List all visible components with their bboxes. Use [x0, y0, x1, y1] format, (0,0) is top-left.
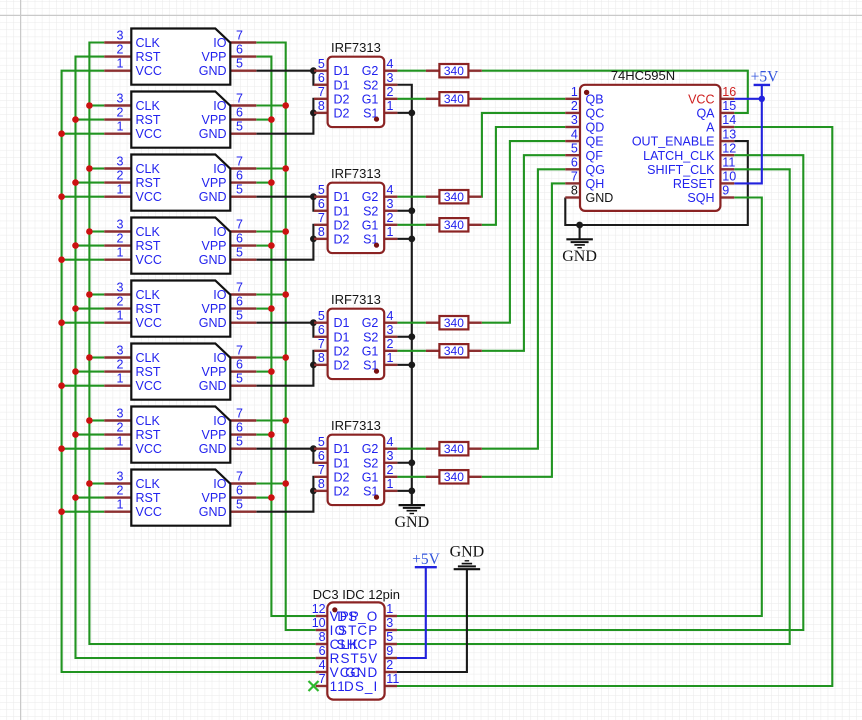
- svg-text:5V: 5V: [360, 651, 379, 666]
- ground 595: [562, 239, 597, 264]
- svg-text:RST: RST: [136, 113, 161, 127]
- svg-text:S2: S2: [363, 204, 378, 218]
- svg-text:5: 5: [318, 57, 325, 71]
- svg-text:VCC: VCC: [136, 442, 162, 456]
- svg-text:7: 7: [236, 218, 243, 232]
- svg-text:3: 3: [571, 113, 578, 127]
- svg-text:VCC: VCC: [136, 253, 162, 267]
- junction dot 595 GND: [576, 222, 583, 229]
- svg-text:1: 1: [387, 225, 394, 239]
- svg-text:7: 7: [236, 281, 243, 295]
- svg-text:7: 7: [318, 85, 325, 99]
- svg-text:1: 1: [387, 99, 394, 113]
- svg-text:9: 9: [722, 184, 729, 198]
- svg-text:RST: RST: [330, 651, 360, 666]
- svg-text:6: 6: [318, 197, 325, 211]
- svg-text:QA: QA: [696, 107, 715, 121]
- wire 595 GND / OUT_ENABLE net: [565, 141, 748, 239]
- svg-text:5: 5: [236, 120, 243, 134]
- wire gate-resistor links: [397, 71, 426, 477]
- svg-text:G1: G1: [362, 92, 379, 106]
- svg-text:CLK: CLK: [136, 99, 161, 113]
- svg-text:1: 1: [387, 477, 394, 491]
- svg-text:340: 340: [444, 92, 464, 106]
- svg-text:4: 4: [387, 183, 394, 197]
- ground DC3: [450, 543, 485, 569]
- svg-text:D1: D1: [334, 190, 350, 204]
- svg-text:D1: D1: [334, 442, 350, 456]
- svg-text:IRF7313: IRF7313: [331, 166, 381, 181]
- wire GND of socket 3 to IRF2 D1: [256, 197, 314, 211]
- wire IRF sources to GND chain: [397, 85, 411, 505]
- svg-text:5: 5: [236, 246, 243, 260]
- svg-text:1: 1: [571, 85, 578, 99]
- svg-text:DS_I: DS_I: [344, 679, 378, 694]
- svg-text:5: 5: [386, 630, 393, 644]
- svg-text:3: 3: [117, 281, 124, 295]
- wire VCC bus: [62, 71, 316, 672]
- svg-text:G2: G2: [362, 316, 379, 330]
- svg-text:RST: RST: [136, 302, 161, 316]
- svg-text:6: 6: [236, 358, 243, 372]
- connector DC3 IDC 12pin: [312, 587, 400, 700]
- connector socket P8: [104, 470, 256, 526]
- svg-text:D2: D2: [334, 484, 350, 498]
- svg-text:2: 2: [117, 43, 124, 57]
- resistor 340 #8: [426, 470, 482, 484]
- svg-text:IO: IO: [213, 36, 226, 50]
- svg-text:QD: QD: [586, 121, 605, 135]
- svg-text:340: 340: [444, 442, 464, 456]
- svg-text:6: 6: [236, 169, 243, 183]
- resistor 340 #1: [426, 64, 482, 78]
- svg-text:7: 7: [236, 470, 243, 484]
- svg-text:G2: G2: [362, 442, 379, 456]
- resistor 340 #3: [426, 190, 482, 204]
- wire QG to R7: [482, 169, 566, 448]
- svg-text:GND: GND: [199, 127, 227, 141]
- svg-text:G1: G1: [362, 470, 379, 484]
- svg-text:QF: QF: [586, 149, 604, 163]
- svg-text:S2: S2: [363, 456, 378, 470]
- svg-text:VPP: VPP: [201, 491, 226, 505]
- wire GND of socket 1 to IRF1 D1: [256, 71, 314, 85]
- svg-text:6: 6: [236, 421, 243, 435]
- svg-text:D2: D2: [334, 92, 350, 106]
- svg-text:GND: GND: [450, 543, 485, 560]
- svg-text:6: 6: [236, 43, 243, 57]
- svg-text:D2: D2: [334, 358, 350, 372]
- svg-text:D2: D2: [334, 470, 350, 484]
- svg-text:D1: D1: [334, 330, 350, 344]
- wire QC to R3: [482, 113, 566, 197]
- svg-text:RST: RST: [136, 491, 161, 505]
- svg-text:VCC: VCC: [136, 64, 162, 78]
- svg-text:3: 3: [117, 29, 124, 43]
- transistor IRF7313 #1: [314, 40, 397, 127]
- resistor 340 #6: [426, 344, 482, 358]
- wire GND of socket 4 to IRF2 D2: [256, 225, 314, 260]
- svg-text:SQH: SQH: [687, 191, 714, 205]
- svg-text:1: 1: [117, 435, 124, 449]
- wire QD to R4: [482, 127, 566, 225]
- svg-text:QG: QG: [586, 163, 605, 177]
- svg-text:IRF7313: IRF7313: [331, 292, 381, 307]
- junction dots CLK bus: [86, 102, 93, 487]
- svg-text:11: 11: [386, 672, 399, 686]
- transistor IRF7313 #4: [314, 418, 397, 505]
- svg-text:VCC: VCC: [688, 92, 714, 106]
- svg-text:16: 16: [722, 85, 736, 99]
- svg-text:A: A: [706, 121, 715, 135]
- wire LATCH_CLK to STCP: [397, 155, 803, 630]
- svg-text:CLK: CLK: [136, 477, 161, 491]
- svg-text:DC3 IDC 12pin: DC3 IDC 12pin: [313, 587, 400, 602]
- svg-text:11: 11: [722, 156, 735, 170]
- svg-text:7: 7: [318, 211, 325, 225]
- svg-text:VPP: VPP: [201, 428, 226, 442]
- connector socket P5: [104, 281, 256, 337]
- junction dot +5V VCC: [759, 96, 765, 102]
- svg-text:D2: D2: [334, 218, 350, 232]
- svg-text:D2: D2: [334, 344, 350, 358]
- connector socket P7: [104, 407, 256, 463]
- svg-text:QH: QH: [586, 177, 605, 191]
- svg-text:5: 5: [236, 435, 243, 449]
- svg-text:QC: QC: [586, 107, 605, 121]
- svg-text:2: 2: [117, 106, 124, 120]
- svg-text:GND: GND: [199, 316, 227, 330]
- svg-text:CLK: CLK: [136, 288, 161, 302]
- svg-text:12: 12: [312, 602, 326, 616]
- svg-text:D1: D1: [334, 64, 350, 78]
- wire IO bus: [256, 43, 315, 631]
- svg-text:IO: IO: [213, 162, 226, 176]
- svg-text:VCC: VCC: [136, 127, 162, 141]
- svg-text:5: 5: [236, 309, 243, 323]
- svg-text:1: 1: [386, 602, 393, 616]
- resistor 340 #7: [426, 442, 482, 456]
- svg-text:RST: RST: [136, 239, 161, 253]
- svg-text:2: 2: [571, 99, 578, 113]
- svg-text:13: 13: [722, 127, 736, 141]
- svg-text:VPP: VPP: [201, 365, 226, 379]
- svg-text:6: 6: [236, 232, 243, 246]
- svg-text:+5V: +5V: [412, 551, 440, 568]
- wire QF to R6: [482, 155, 566, 351]
- svg-text:S2: S2: [363, 330, 378, 344]
- svg-text:SHCP: SHCP: [336, 637, 378, 652]
- wire QE to R5: [482, 141, 566, 323]
- svg-text:VPP: VPP: [201, 302, 226, 316]
- svg-text:7: 7: [319, 672, 326, 686]
- svg-text:CLK: CLK: [136, 351, 161, 365]
- resistor 340 #2: [426, 92, 482, 106]
- junction dots RST bus: [72, 116, 79, 501]
- transistor IRF7313 #2: [314, 166, 397, 253]
- svg-text:VPP: VPP: [201, 50, 226, 64]
- svg-text:CLK: CLK: [136, 162, 161, 176]
- svg-text:RST: RST: [136, 365, 161, 379]
- svg-text:6: 6: [318, 449, 325, 463]
- svg-text:7: 7: [571, 170, 578, 184]
- svg-text:340: 340: [444, 64, 464, 78]
- svg-text:5: 5: [236, 57, 243, 71]
- svg-text:5: 5: [318, 183, 325, 197]
- svg-text:340: 340: [444, 190, 464, 204]
- svg-text:D2: D2: [334, 106, 350, 120]
- wire GND of socket 7 to IRF4 D1: [256, 449, 314, 463]
- svg-text:1: 1: [117, 246, 124, 260]
- svg-text:D1: D1: [334, 204, 350, 218]
- svg-text:8: 8: [318, 99, 325, 113]
- svg-text:IO: IO: [213, 99, 226, 113]
- wire GND of socket 6 to IRF3 D2: [256, 351, 314, 386]
- connector socket P3: [104, 155, 256, 211]
- svg-text:GND: GND: [199, 505, 227, 519]
- svg-text:3: 3: [117, 155, 124, 169]
- svg-text:12: 12: [722, 141, 736, 155]
- wire R2 to QB: [482, 98, 566, 100]
- svg-text:3: 3: [117, 92, 124, 106]
- svg-text:15: 15: [722, 99, 736, 113]
- svg-text:IO: IO: [213, 288, 226, 302]
- svg-text:S2: S2: [363, 78, 378, 92]
- svg-text:1: 1: [117, 498, 124, 512]
- svg-text:1: 1: [117, 183, 124, 197]
- svg-text:VPP: VPP: [201, 239, 226, 253]
- svg-text:VPP: VPP: [201, 113, 226, 127]
- svg-text:7: 7: [236, 344, 243, 358]
- wire QH to R8: [482, 183, 566, 476]
- shift register U 74HC595N: [565, 68, 736, 211]
- svg-text:3: 3: [387, 323, 394, 337]
- resistor 340 #5: [426, 316, 482, 330]
- svg-text:1: 1: [387, 351, 394, 365]
- svg-text:2: 2: [117, 169, 124, 183]
- svg-text:4: 4: [387, 57, 394, 71]
- svg-text:RESET: RESET: [673, 177, 715, 191]
- svg-text:1: 1: [117, 309, 124, 323]
- svg-text:2: 2: [387, 211, 394, 225]
- svg-text:6: 6: [319, 644, 326, 658]
- svg-text:3: 3: [117, 407, 124, 421]
- svg-text:G2: G2: [362, 64, 379, 78]
- svg-text:RST: RST: [136, 176, 161, 190]
- wire R1 to QA: [482, 71, 748, 113]
- svg-text:10: 10: [312, 616, 326, 630]
- svg-text:OUT_ENABLE: OUT_ENABLE: [632, 135, 715, 149]
- connector socket P4: [104, 218, 256, 274]
- svg-text:3: 3: [117, 344, 124, 358]
- svg-text:IO: IO: [213, 351, 226, 365]
- junction dots IRF4 drain wires: [310, 445, 317, 494]
- svg-text:9: 9: [386, 644, 393, 658]
- svg-text:4: 4: [319, 658, 326, 672]
- svg-text:3: 3: [386, 616, 393, 630]
- svg-text:3: 3: [117, 218, 124, 232]
- svg-text:RST: RST: [136, 428, 161, 442]
- svg-text:GND: GND: [199, 253, 227, 267]
- svg-text:GND: GND: [199, 190, 227, 204]
- svg-text:10: 10: [722, 170, 736, 184]
- power +5V top: [751, 69, 779, 86]
- svg-text:2: 2: [386, 658, 393, 672]
- svg-text:4: 4: [571, 127, 578, 141]
- svg-text:7: 7: [236, 92, 243, 106]
- svg-text:VPP: VPP: [201, 176, 226, 190]
- junction dots VCC bus: [58, 130, 65, 515]
- svg-text:QE: QE: [586, 135, 604, 149]
- svg-text:4: 4: [387, 435, 394, 449]
- svg-text:IRF7313: IRF7313: [331, 40, 381, 55]
- resistor 340 #4: [426, 218, 482, 232]
- svg-text:G1: G1: [362, 218, 379, 232]
- svg-text:4: 4: [387, 309, 394, 323]
- svg-text:8: 8: [318, 351, 325, 365]
- svg-text:7: 7: [318, 463, 325, 477]
- svg-text:VCC: VCC: [136, 379, 162, 393]
- svg-text:2: 2: [387, 337, 394, 351]
- svg-text:340: 340: [444, 316, 464, 330]
- wire A to DS_I: [397, 127, 832, 686]
- svg-text:VCC: VCC: [136, 190, 162, 204]
- wire RST bus: [76, 57, 316, 658]
- svg-text:SHIFT_CLK: SHIFT_CLK: [647, 163, 715, 177]
- svg-text:3: 3: [117, 470, 124, 484]
- svg-text:6: 6: [236, 106, 243, 120]
- wire DC3 5V: [397, 567, 426, 658]
- svg-text:6: 6: [318, 71, 325, 85]
- connector socket P2: [104, 92, 256, 148]
- svg-text:2: 2: [117, 232, 124, 246]
- svg-text:IO: IO: [213, 414, 226, 428]
- svg-text:5: 5: [318, 435, 325, 449]
- svg-text:CLK: CLK: [136, 225, 161, 239]
- junction dots IRF2 drain wires: [310, 193, 317, 242]
- svg-text:3: 3: [387, 197, 394, 211]
- svg-text:IO: IO: [213, 225, 226, 239]
- svg-text:GND: GND: [199, 64, 227, 78]
- svg-text:3: 3: [387, 449, 394, 463]
- wire +5V to VCC and RESET: [734, 85, 762, 183]
- wire GND of socket 8 to IRF4 D2: [256, 477, 314, 512]
- svg-text:2: 2: [117, 358, 124, 372]
- svg-text:2: 2: [387, 85, 394, 99]
- svg-text:2: 2: [387, 463, 394, 477]
- svg-text:GND: GND: [199, 442, 227, 456]
- svg-text:5: 5: [236, 498, 243, 512]
- svg-text:VCC: VCC: [136, 505, 162, 519]
- svg-text:IRF7313: IRF7313: [331, 418, 381, 433]
- svg-text:340: 340: [444, 218, 464, 232]
- svg-text:D1: D1: [334, 78, 350, 92]
- ground IRF sources: [394, 505, 429, 531]
- transistor IRF7313 #3: [314, 292, 397, 379]
- svg-text:CLK: CLK: [136, 36, 161, 50]
- svg-text:5: 5: [236, 372, 243, 386]
- svg-text:7: 7: [236, 155, 243, 169]
- svg-text:8: 8: [571, 184, 578, 198]
- wire CLK bus: [89, 43, 315, 645]
- connector socket P6: [104, 344, 256, 400]
- svg-text:IO: IO: [213, 477, 226, 491]
- svg-text:340: 340: [444, 344, 464, 358]
- junction dots IO bus: [282, 102, 289, 487]
- svg-text:3: 3: [387, 71, 394, 85]
- no-connect flag pin7: [309, 681, 319, 691]
- svg-text:2: 2: [117, 484, 124, 498]
- wire VPP bus: [256, 57, 315, 616]
- junction dots VPP bus: [268, 116, 275, 501]
- junction dots source chain: [408, 109, 415, 494]
- svg-text:D2: D2: [334, 232, 350, 246]
- svg-text:74HC595N: 74HC595N: [611, 68, 675, 83]
- svg-text:GND: GND: [345, 665, 378, 680]
- connector socket P1: [104, 29, 256, 85]
- svg-text:2: 2: [117, 421, 124, 435]
- svg-text:7: 7: [236, 407, 243, 421]
- svg-text:5: 5: [318, 309, 325, 323]
- svg-text:DS_O: DS_O: [337, 609, 378, 624]
- wire SHIFT_CLK to SHCP: [397, 169, 790, 644]
- svg-text:340: 340: [444, 470, 464, 484]
- svg-text:1: 1: [117, 120, 124, 134]
- svg-text:1: 1: [117, 57, 124, 71]
- wire DC3 GND: [397, 569, 467, 672]
- svg-text:2: 2: [117, 295, 124, 309]
- svg-text:7: 7: [236, 29, 243, 43]
- junction dots IRF1 drain wires: [310, 67, 317, 116]
- svg-text:D1: D1: [334, 456, 350, 470]
- svg-text:GND: GND: [586, 191, 614, 205]
- wire GND of socket 2 to IRF1 D2: [256, 99, 314, 134]
- svg-text:RST: RST: [136, 50, 161, 64]
- svg-text:1: 1: [117, 372, 124, 386]
- svg-text:G1: G1: [362, 344, 379, 358]
- svg-text:+5V: +5V: [751, 69, 779, 86]
- svg-text:8: 8: [318, 225, 325, 239]
- svg-text:6: 6: [236, 484, 243, 498]
- svg-text:7: 7: [318, 337, 325, 351]
- svg-text:VCC: VCC: [136, 316, 162, 330]
- svg-text:5: 5: [236, 183, 243, 197]
- svg-text:8: 8: [319, 630, 326, 644]
- svg-text:6: 6: [318, 323, 325, 337]
- svg-text:5: 5: [571, 141, 578, 155]
- junction dots IRF3 drain wires: [310, 319, 317, 368]
- power +5V bottom: [412, 551, 440, 568]
- svg-text:LATCH_CLK: LATCH_CLK: [643, 149, 715, 163]
- svg-text:14: 14: [722, 113, 736, 127]
- wire SQH to DS_O: [397, 198, 762, 617]
- wire GND of socket 5 to IRF3 D1: [256, 323, 314, 337]
- svg-text:6: 6: [236, 295, 243, 309]
- svg-text:8: 8: [318, 477, 325, 491]
- svg-text:STCP: STCP: [338, 623, 378, 638]
- svg-text:GND: GND: [394, 514, 429, 531]
- svg-text:GND: GND: [562, 248, 597, 265]
- svg-text:D1: D1: [334, 316, 350, 330]
- svg-text:GND: GND: [199, 379, 227, 393]
- svg-text:G2: G2: [362, 190, 379, 204]
- svg-text:6: 6: [571, 156, 578, 170]
- svg-text:CLK: CLK: [136, 414, 161, 428]
